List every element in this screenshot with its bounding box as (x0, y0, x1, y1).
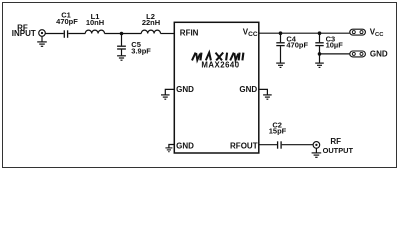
GND bottom-left stub wire (169, 145, 174, 148)
ground (C4) (276, 63, 285, 67)
RF output terminal J2 (313, 142, 320, 149)
svg-text:MAX2640: MAX2640 (201, 60, 239, 69)
node C3 junction (318, 31, 322, 35)
svg-text:470pF: 470pF (56, 17, 78, 26)
capacitor C5 branch wire (121, 34, 123, 46)
ground (C3) (315, 63, 324, 67)
wire L2 to RFIN (161, 33, 175, 35)
svg-text:GND: GND (239, 85, 257, 94)
GND left stub wire (165, 89, 174, 94)
capacitor C1 (64, 30, 67, 38)
GND right stub wire (259, 89, 268, 94)
capacitor C5 (117, 46, 126, 49)
svg-text:15pF: 15pF (269, 127, 287, 136)
node junction dot (120, 32, 124, 36)
ground (left mid) (161, 95, 170, 99)
inductor L1 (85, 30, 104, 33)
svg-text:OUTPUT: OUTPUT (323, 146, 354, 155)
wire to GND header (320, 53, 350, 55)
capacitor C2 (278, 141, 282, 148)
wire L1 to L2 (105, 33, 142, 35)
VCC header connector (350, 29, 366, 35)
RF INPUT label (12, 24, 36, 38)
svg-text:GND: GND (370, 50, 388, 59)
wire VCC rail (259, 32, 350, 34)
capacitor C3 (319, 33, 321, 42)
RF input terminal J1 (39, 30, 46, 37)
wire C1 to L1 (68, 33, 85, 35)
svg-text:GND: GND (176, 141, 194, 150)
svg-text:3.9pF: 3.9pF (131, 46, 151, 55)
ground (output terminal) (312, 148, 322, 157)
svg-text:RFIN: RFIN (180, 29, 199, 38)
inductor L2 (141, 30, 160, 33)
wire terminal to C1 (45, 33, 63, 35)
svg-text:22nH: 22nH (142, 18, 160, 27)
op-amp U1 MAX2640 box (174, 22, 258, 153)
svg-text:470pF: 470pF (286, 41, 308, 50)
svg-text:RFOUT: RFOUT (230, 141, 258, 150)
ground (input terminal) (37, 36, 47, 46)
svg-text:GND: GND (176, 85, 194, 94)
capacitor C4 (280, 33, 282, 42)
ground (C5) (117, 56, 126, 60)
wire RFOUT rail (259, 144, 277, 146)
node C4 junction (279, 31, 283, 35)
node GND branch junction (318, 52, 322, 56)
svg-text:10nH: 10nH (86, 18, 104, 27)
svg-text:INPUT: INPUT (12, 29, 36, 38)
border frame (3, 3, 397, 168)
ground (right mid) (263, 95, 272, 99)
wire C2 to output terminal (282, 144, 314, 146)
ground (bottom left) (165, 148, 172, 152)
GND header connector (350, 51, 366, 57)
MAXIM logo (192, 53, 243, 61)
svg-text:10µF: 10µF (326, 41, 344, 50)
